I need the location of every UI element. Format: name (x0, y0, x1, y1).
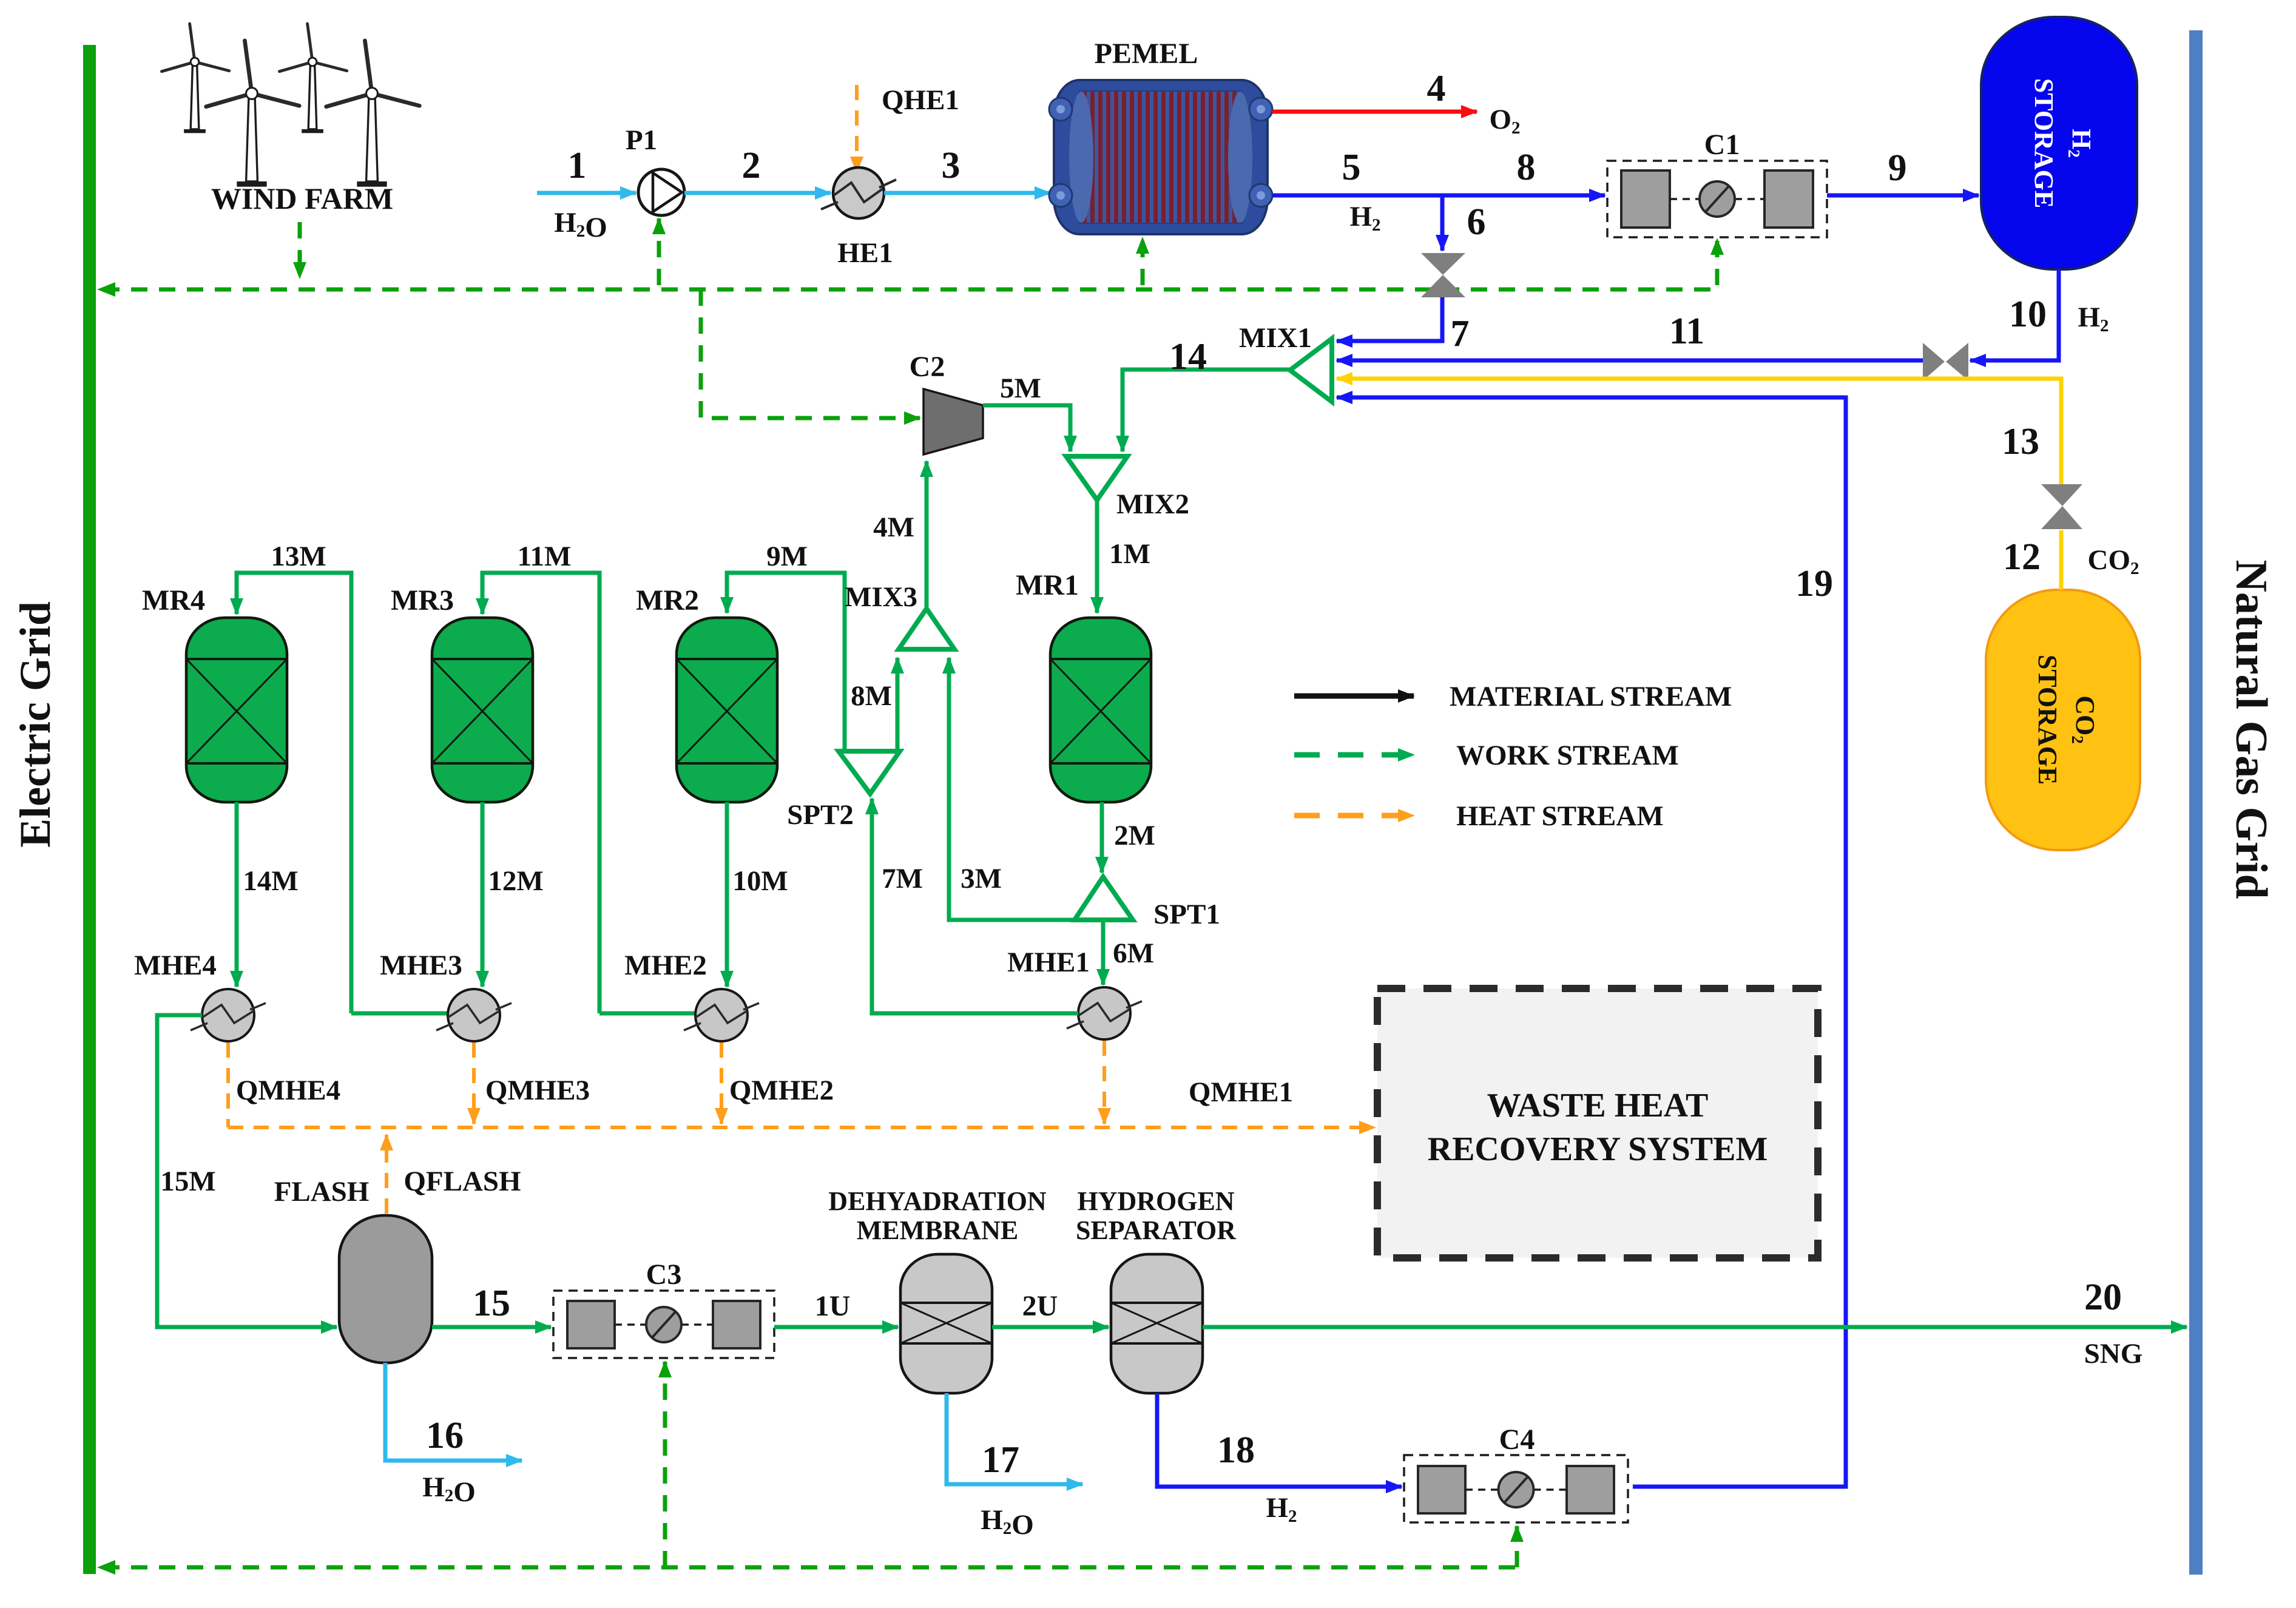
svg-text:STORAGE: STORAGE (2029, 78, 2059, 208)
svg-text:4: 4 (1427, 68, 1446, 109)
svg-text:QHE1: QHE1 (882, 84, 959, 116)
svg-text:MHE2: MHE2 (624, 950, 707, 981)
stream 7 to MIX1 (1337, 297, 1442, 341)
stream 5M C2 to MIX2 (983, 405, 1070, 451)
stream 19 recycle H2 from C4 to MIX1 (1337, 397, 1846, 1487)
svg-text:15M: 15M (160, 1166, 215, 1197)
stream 3M SPT1 to MIX3 (949, 658, 1075, 920)
pump P1 (638, 169, 684, 215)
stream 4M MIX3 to C2 (925, 461, 929, 609)
svg-text:12: 12 (2003, 536, 2041, 578)
svg-text:MHE1: MHE1 (1007, 947, 1090, 978)
svg-text:2U: 2U (1022, 1290, 1058, 1322)
compressor unit C3 (553, 1291, 774, 1358)
mixer MIX2 (1066, 456, 1127, 500)
hydrogen separator vessel (1111, 1254, 1203, 1393)
stream 6 into valve (1440, 195, 1445, 251)
stream 4 O2 vent (1272, 110, 1477, 114)
heat stream QMHE4 (226, 1042, 230, 1127)
svg-text:4M: 4M (873, 512, 914, 543)
valve V12 (2041, 484, 2082, 529)
label Natural Gas Grid (2226, 559, 2276, 899)
svg-text:MIX1: MIX1 (1239, 322, 1312, 354)
stream 20 SNG to natural gas grid (1203, 1325, 2187, 1329)
svg-text:MIX3: MIX3 (845, 581, 917, 613)
stream 12M MR3 to MHE3 (481, 802, 485, 987)
wind turbine 1 (191, 66, 199, 129)
svg-text:WASTE HEAT: WASTE HEAT (1487, 1087, 1709, 1124)
svg-text:FLASH: FLASH (274, 1176, 370, 1208)
stream 8 to C1 (1442, 194, 1605, 198)
stream 6M SPT1 to MHE1 (1101, 922, 1106, 985)
svg-text:1M: 1M (1109, 538, 1150, 570)
svg-text:HEAT STREAM: HEAT STREAM (1456, 800, 1664, 832)
stream 7M MHE1 to SPT2 (872, 799, 1078, 1013)
svg-text:SPT1: SPT1 (1153, 899, 1220, 930)
wind turbine 2 (246, 97, 258, 181)
stream 1U C3 to membrane (774, 1325, 898, 1329)
reactor MR3 (432, 618, 533, 802)
svg-text:C4: C4 (1499, 1424, 1535, 1456)
heat exchanger MHE2 (684, 989, 759, 1041)
reactor MR2 (677, 618, 777, 802)
heat exchanger MHE3 (436, 989, 512, 1041)
compressor C2 (923, 389, 983, 454)
svg-text:18: 18 (1217, 1430, 1255, 1471)
svg-text:11M: 11M (518, 541, 572, 572)
svg-text:SNG: SNG (2084, 1338, 2143, 1370)
stream 9 to H2 storage (1827, 194, 1979, 198)
stream 14M MR4 to MHE4 (235, 802, 239, 987)
svg-text:SEPARATOR: SEPARATOR (1076, 1215, 1237, 1245)
stream 16 H2O from FLASH (385, 1363, 522, 1461)
svg-text:3M: 3M (961, 863, 1002, 894)
svg-text:MR4: MR4 (142, 584, 205, 617)
svg-text:12M: 12M (488, 865, 543, 897)
stream 11M MHE2 to MR3 (599, 1012, 695, 1016)
work stream branch to PEMEL (1141, 238, 1145, 285)
stream 1M MIX2 to MR1 (1095, 500, 1099, 613)
compressor unit C1 (1607, 161, 1827, 237)
svg-text:5: 5 (1342, 147, 1361, 188)
heat stream main line to waste heat recovery (228, 1126, 1375, 1129)
svg-text:WIND FARM: WIND FARM (211, 181, 393, 215)
svg-text:MR2: MR2 (636, 584, 699, 617)
svg-text:MR3: MR3 (391, 584, 454, 617)
svg-text:P1: P1 (626, 124, 657, 156)
compressor unit C4 (1404, 1455, 1628, 1522)
svg-text:RECOVERY SYSTEM: RECOVERY SYSTEM (1428, 1130, 1768, 1168)
stream 5 H2 (1272, 194, 1442, 198)
wind turbine 4 (366, 97, 378, 181)
stream 14 MIX1 to MIX2 (1123, 370, 1290, 451)
svg-text:19: 19 (1795, 563, 1833, 604)
stream 2U membrane to separator (992, 1325, 1109, 1329)
svg-text:15: 15 (473, 1283, 510, 1324)
stream 15M MHE4 to FLASH (157, 1015, 337, 1327)
svg-text:3: 3 (942, 145, 961, 186)
svg-text:MHE3: MHE3 (380, 950, 462, 981)
stream 12 CO2 from storage (2059, 530, 2064, 590)
reactor MR4 (186, 618, 287, 802)
svg-text:C2: C2 (910, 351, 945, 383)
svg-text:Electric Grid: Electric Grid (11, 601, 59, 848)
legend heat stream (1294, 813, 1414, 819)
svg-text:MIX2: MIX2 (1116, 488, 1189, 520)
svg-text:1U: 1U (815, 1290, 851, 1322)
svg-text:17: 17 (982, 1439, 1019, 1481)
svg-text:9: 9 (1888, 147, 1907, 189)
work stream branch to compressor C2 (701, 289, 920, 418)
stream 3 (884, 191, 1050, 195)
work stream bottom line from grid to C3 and C4 (103, 1566, 1517, 1570)
svg-text:10: 10 (2009, 294, 2047, 335)
stream 17 H2O from membrane (947, 1393, 1082, 1484)
svg-text:8: 8 (1517, 147, 1536, 188)
svg-text:5M: 5M (1000, 373, 1041, 404)
stream 2 (684, 191, 831, 195)
svg-text:PEMEL: PEMEL (1095, 38, 1198, 70)
H2 storage tank (1981, 17, 2137, 269)
wind turbine 3 (308, 66, 317, 129)
svg-text:13M: 13M (271, 541, 326, 572)
svg-text:QFLASH: QFLASH (403, 1166, 521, 1197)
waste heat recovery system box (1377, 988, 1818, 1258)
stream 11 to MIX1 (1337, 359, 1923, 363)
natural gas grid bus bar (2189, 30, 2203, 1575)
svg-text:Natural Gas Grid: Natural Gas Grid (2226, 559, 2276, 899)
svg-text:1: 1 (568, 145, 587, 186)
heat exchanger MHE4 (191, 989, 266, 1041)
flash drum FLASH (339, 1215, 432, 1363)
svg-text:20: 20 (2084, 1277, 2122, 1318)
dehydration membrane vessel (900, 1254, 992, 1393)
work stream riser to compressor C4 (1515, 1526, 1519, 1567)
work stream branch from wind farm (298, 222, 302, 278)
stream 8M SPT2 to MIX3 (896, 658, 900, 751)
work stream branch to pump P1 (657, 218, 661, 285)
stream 10M MR2 to MHE2 (725, 802, 729, 987)
stream 18 H2 from separator to C4 (1157, 1393, 1402, 1487)
valve V6 (1421, 253, 1465, 297)
stream 10 from H2 storage (1970, 269, 2059, 360)
heat stream QHE1 into HE1 (855, 85, 859, 172)
mixer MIX3 (899, 609, 954, 649)
reactor MR1 (1050, 618, 1151, 802)
work stream riser to compressor C1 (1715, 239, 1720, 285)
svg-text:10M: 10M (732, 865, 788, 897)
stream 9M SPT2 to MR2 (727, 573, 845, 751)
work stream main line from grid to C1 (103, 288, 1717, 292)
svg-text:9M: 9M (766, 541, 808, 572)
heat stream QMHE3 (472, 1042, 476, 1124)
work stream riser to compressor C3 (663, 1362, 667, 1567)
svg-text:6M: 6M (1113, 937, 1154, 969)
valve V10 (1923, 343, 1968, 380)
heat stream QMHE2 (720, 1042, 723, 1124)
svg-text:STORAGE: STORAGE (2033, 655, 2062, 785)
electric grid bus bar (83, 45, 96, 1574)
svg-text:2: 2 (742, 145, 761, 186)
mixer MIX1 (1290, 339, 1332, 402)
svg-text:QMHE1: QMHE1 (1189, 1076, 1293, 1108)
svg-text:QMHE3: QMHE3 (485, 1075, 590, 1106)
svg-text:MEMBRANE: MEMBRANE (857, 1215, 1018, 1245)
legend work stream (1294, 752, 1414, 758)
svg-text:7M: 7M (882, 863, 923, 894)
stream 15 FLASH to C3 (432, 1325, 551, 1329)
label Electric Grid (11, 601, 59, 848)
svg-text:QMHE2: QMHE2 (729, 1075, 834, 1106)
svg-text:14M: 14M (243, 865, 298, 897)
svg-text:MHE4: MHE4 (134, 950, 217, 981)
svg-text:QMHE4: QMHE4 (236, 1075, 340, 1106)
heat exchanger HE1 (833, 167, 884, 218)
svg-text:MR1: MR1 (1016, 569, 1079, 601)
svg-text:13: 13 (2002, 421, 2039, 462)
stream 1 H2O feed (537, 191, 636, 195)
svg-text:7: 7 (1451, 313, 1470, 354)
svg-text:C3: C3 (646, 1258, 682, 1291)
splitter SPT1 (1075, 877, 1133, 920)
svg-text:6: 6 (1467, 201, 1486, 243)
svg-text:16: 16 (426, 1415, 464, 1456)
svg-text:DEHYADRATION: DEHYADRATION (828, 1186, 1047, 1216)
heat stream QMHE1 (1102, 1041, 1106, 1124)
svg-text:SPT2: SPT2 (787, 799, 854, 831)
heat stream QFLASH (385, 1135, 388, 1214)
splitter SPT2 (839, 751, 900, 794)
legend material stream (1294, 694, 1414, 699)
svg-text:2M: 2M (1114, 820, 1155, 851)
svg-text:11: 11 (1669, 311, 1705, 352)
electrolyser PEMEL (1049, 80, 1272, 234)
stream 13 to MIX1 (1337, 379, 2061, 484)
svg-text:HE1: HE1 (837, 237, 893, 269)
svg-text:WORK STREAM: WORK STREAM (1456, 740, 1679, 771)
svg-text:14: 14 (1169, 336, 1207, 377)
svg-text:C1: C1 (1704, 129, 1740, 161)
svg-text:HYDROGEN: HYDROGEN (1077, 1186, 1234, 1216)
svg-text:MATERIAL STREAM: MATERIAL STREAM (1450, 681, 1732, 712)
stream 13M MHE3 to MR4 (351, 1012, 500, 1016)
svg-text:8M: 8M (851, 680, 892, 712)
CO2 storage tank (1986, 590, 2140, 850)
stream 2M MR1 to SPT1 (1100, 802, 1104, 873)
heat exchanger MHE1 (1067, 987, 1142, 1039)
